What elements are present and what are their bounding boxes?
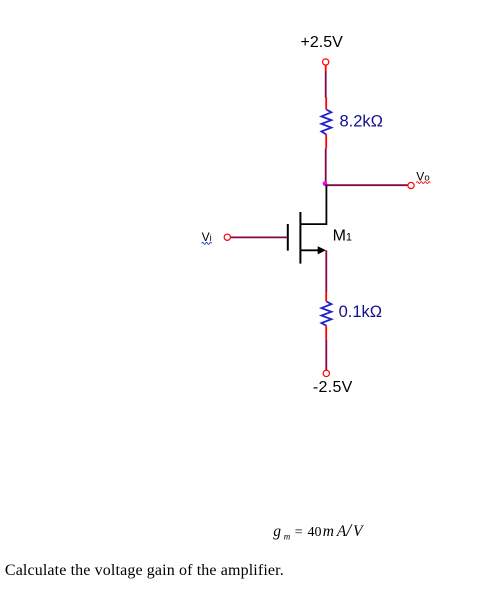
label Vi [202, 230, 212, 244]
svg-text:Vi: Vi [202, 230, 212, 244]
svg-text:8.2kΩ: 8.2kΩ [340, 112, 384, 130]
wire Vi terminal to gate [231, 236, 287, 238]
transistor M1 channel bar [299, 212, 301, 264]
svg-text:Vo: Vo [416, 170, 429, 184]
squiggle (grammar-check) under Vi [202, 242, 212, 244]
resistor R1 bottom lead [325, 135, 327, 149]
transistor M1 drain lead [300, 186, 326, 225]
terminal Vo [408, 182, 414, 188]
equation gm = 40 mA/V [273, 520, 364, 542]
label Vo [416, 170, 429, 184]
transistor M1 source lead with arrow [300, 246, 326, 254]
resistor R2 zigzag 0.1k [321, 301, 331, 325]
svg-text:0.1kΩ: 0.1kΩ [339, 303, 383, 321]
resistor R2 top lead [325, 291, 327, 301]
svg-text:M1: M1 [333, 228, 352, 245]
wire R2 to -2.5V terminal [325, 339, 327, 370]
svg-text:Calculate the voltage gain of: Calculate the voltage gain of the amplif… [5, 562, 284, 579]
resistor R2 bottom lead [325, 326, 327, 340]
resistor R1 top lead [325, 97, 327, 110]
wire source to R2 [325, 250, 327, 292]
label M1 [333, 228, 352, 245]
transistor M1 gate bar [287, 224, 289, 251]
svg-text:-2.5V: -2.5V [313, 379, 353, 396]
caption: Calculate the voltage gain of the amplifier. [5, 562, 284, 579]
power label +2.5V [301, 34, 344, 51]
squiggle (spell-check) under Vo [416, 182, 430, 184]
terminal -2.5V [323, 370, 329, 376]
wire from +2.5V terminal to R1 [325, 72, 327, 98]
node junction dot [323, 181, 328, 186]
svg-text:gm=40mA/V: gm=40mA/V [273, 520, 364, 542]
wire red stub below +2.5V terminal [325, 65, 327, 71]
terminal +2.5V [323, 59, 329, 65]
resistor R2 value label 0.1kΩ [339, 303, 383, 321]
svg-text:+2.5V: +2.5V [301, 34, 344, 51]
power label -2.5V [313, 379, 353, 396]
wire node to Vo terminal [325, 184, 408, 186]
wire from R1 to node [325, 148, 327, 184]
terminal Vi [224, 234, 230, 240]
resistor R1 zigzag 8.2k [321, 110, 331, 135]
resistor R1 value label 8.2kΩ [340, 112, 384, 130]
